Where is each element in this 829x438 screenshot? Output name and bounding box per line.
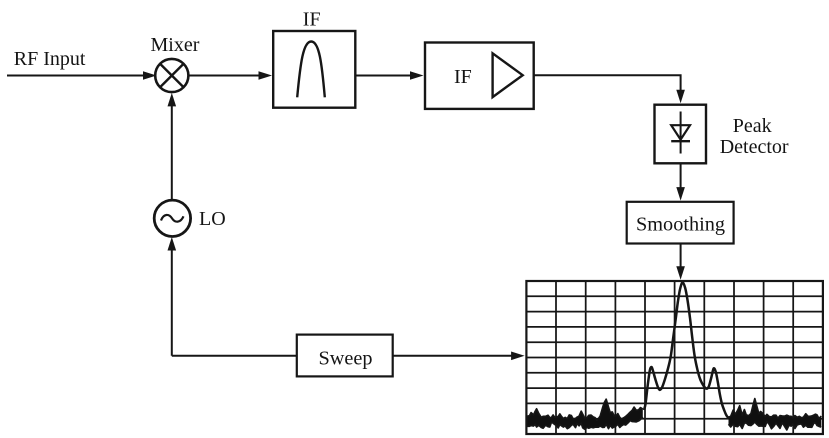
node arrowhead into display left [511,352,524,361]
display graticule horizontal lines [526,296,823,418]
node arrowhead into smoothing [676,187,685,201]
wire peak detector to smoothing [680,163,682,190]
spectrum trace noise left bottom edge [528,417,643,429]
node RF input arrowhead into mixer [143,71,157,80]
node arrowhead into IF amp [410,71,424,80]
svg-text:Peak: Peak [733,115,772,137]
amplifier triangle [493,53,523,97]
spectrum trace noise left top edge [528,399,643,420]
IF filter bandpass curve [297,42,325,98]
wire sweep corner up to LO [171,249,173,356]
spectrum trace noise band right (fill) [729,399,822,430]
IF bandpass filter box [273,31,355,108]
wire LO corner to sweep box [172,355,297,357]
wire mixer to LO (vertical) [171,105,173,200]
display graticule vertical lines [556,281,793,434]
diode D1 triangle [671,125,690,139]
mixer M1 X diagonals [160,64,183,87]
wire IF filter to IF amp [355,75,413,77]
wire sweep to display [393,355,514,357]
svg-text:IF: IF [303,9,321,31]
sweep generator box [297,335,393,377]
node arrowhead into display top [676,266,685,280]
svg-text:IF: IF [454,66,472,88]
diode D1 cathode bar [671,140,690,142]
oscillator LO sine wave [161,215,184,222]
node arrowhead into mixer bottom [168,93,177,107]
spectrum trace main peak and sidelobes [644,282,729,418]
svg-text:Smoothing: Smoothing [636,213,725,235]
spectrum trace noise right bottom edge [729,422,822,430]
oscillator LO circle [154,200,190,236]
node arrowhead into IF filter [259,71,273,80]
IF amplifier box [425,43,534,109]
svg-text:Mixer: Mixer [151,34,200,56]
node arrowhead into peak detector [676,90,685,104]
node arrowhead into LO bottom [168,237,177,251]
wire smoothing to display [680,244,682,270]
display screen outer frame [526,281,823,434]
svg-text:Detector: Detector [720,136,789,158]
peak detector box [655,105,707,164]
svg-text:Sweep: Sweep [319,348,373,370]
wire IF amp to corner above peak detector [534,75,681,93]
spectrum trace noise right top edge [729,399,822,419]
diode D1 vertical lead [680,112,682,154]
svg-text:LO: LO [199,208,226,230]
mixer M1 circle [155,59,188,92]
wire mixer to IF filter [188,75,262,77]
wire RF input line [7,75,145,77]
smoothing box [627,202,734,244]
spectrum trace noise band left (fill) [528,399,643,429]
svg-text:RF Input: RF Input [14,48,86,70]
